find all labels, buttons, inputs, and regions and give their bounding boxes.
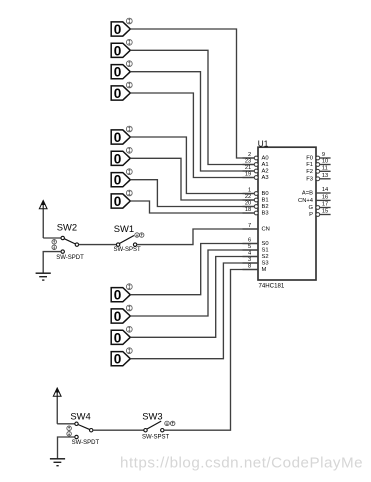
pin 21 A2 (243, 165, 269, 175)
svg-text:0: 0 (114, 86, 122, 101)
svg-text:5: 5 (248, 244, 251, 250)
svg-text:0: 0 (114, 352, 122, 367)
wire SW4 pole to SW3 (93, 429, 144, 431)
svg-text:4: 4 (248, 251, 251, 257)
svg-text:SW-SPDT: SW-SPDT (56, 255, 84, 261)
svg-text:B1: B1 (262, 198, 269, 204)
pin 6 S0 (243, 238, 269, 248)
switch SW3 SW-SPST (142, 410, 175, 440)
wire LS10 to U1 S1 (130, 250, 258, 316)
logic state LS4 (net A3) (111, 82, 132, 101)
svg-text:16: 16 (322, 195, 328, 201)
pin 13 F3 (306, 173, 330, 183)
svg-text:S1: S1 (262, 248, 269, 254)
svg-text:7: 7 (248, 223, 251, 229)
svg-text:9: 9 (322, 152, 325, 158)
power symbol (VCC arrow) for SW4 (53, 388, 61, 424)
svg-text:B0: B0 (262, 191, 269, 197)
pin 10 F1 (306, 159, 330, 169)
logic state LS11 (net S2) (111, 326, 132, 345)
svg-text:18: 18 (245, 207, 251, 213)
logic state LS12 (net S3) (111, 348, 132, 367)
wire SW1 to U1 CN (137, 229, 258, 245)
svg-text:3: 3 (248, 257, 251, 263)
pin 3 S3 (243, 257, 269, 267)
svg-text:0: 0 (114, 173, 122, 188)
pin 14 A=B (302, 187, 331, 197)
svg-text:0: 0 (114, 151, 122, 166)
svg-text:19: 19 (245, 172, 251, 178)
switch SW2 SW-SPDT (52, 222, 84, 261)
svg-text:M: M (262, 267, 267, 273)
wire power to SW2 top throw (43, 237, 61, 239)
pin 5 S1 (243, 244, 269, 254)
wire SW2 bottom throw to ground (43, 252, 61, 273)
op IC U1 74HC181 body (258, 140, 316, 290)
pin 1 B0 (243, 188, 269, 198)
svg-text:15: 15 (322, 209, 328, 215)
logic state LS10 (net S1) (111, 305, 132, 324)
svg-text:A2: A2 (262, 169, 269, 175)
svg-text:SW-SPST: SW-SPST (142, 435, 170, 441)
logic state LS1 (net A0) (111, 18, 132, 37)
pin 17 G (308, 202, 330, 212)
pin 22 B1 (243, 194, 269, 204)
logic state LS2 (net A1) (111, 39, 132, 58)
svg-text:S0: S0 (262, 241, 269, 247)
svg-text:B2: B2 (262, 204, 269, 210)
svg-text:8: 8 (248, 264, 251, 270)
svg-text:CN: CN (262, 227, 270, 233)
pin 16 CN+4 (298, 195, 331, 205)
pin 20 B2 (243, 201, 269, 211)
wire LS1 to U1 A0 (130, 29, 254, 158)
logic state LS9 (net S0) (111, 284, 132, 303)
pin 2 A0 (243, 152, 269, 162)
ground symbol below SW4 (50, 459, 65, 466)
wire LS9 to U1 S0 (130, 244, 258, 295)
svg-text:SW4: SW4 (70, 410, 90, 421)
svg-text:U1: U1 (258, 140, 269, 149)
svg-text:0: 0 (114, 130, 122, 145)
svg-text:SW1: SW1 (114, 223, 134, 234)
pin 11 F2 (306, 166, 330, 176)
svg-text:F3: F3 (306, 177, 313, 183)
wire power to SW4 top throw (57, 423, 75, 425)
svg-text:A3: A3 (262, 175, 269, 181)
wire SW3 to U1 M (164, 270, 258, 431)
pin 15 P (309, 209, 330, 219)
svg-text:22: 22 (245, 194, 251, 200)
logic state LS3 (net A2) (111, 61, 132, 80)
pin 7 CN (243, 223, 270, 233)
svg-text:S3: S3 (262, 261, 269, 267)
svg-text:P: P (309, 212, 313, 218)
wire LS4 to U1 A3 (130, 93, 254, 178)
svg-text:11: 11 (322, 166, 328, 172)
svg-text:2: 2 (248, 152, 251, 158)
switch SW4 SW-SPDT (67, 410, 100, 446)
logic state LS8 (net B3) (111, 190, 132, 209)
wire LS7 to U1 B2 (130, 180, 254, 207)
svg-text:SW2: SW2 (57, 222, 77, 233)
wire SW4 bottom throw to ground (58, 437, 75, 459)
wire LS11 to U1 S2 (130, 257, 258, 338)
svg-text:CN+4: CN+4 (298, 198, 314, 204)
svg-text:17: 17 (322, 202, 328, 208)
svg-text:0: 0 (114, 309, 122, 324)
svg-text:F1: F1 (306, 162, 313, 168)
svg-text:0: 0 (114, 330, 122, 345)
pin 18 B3 (243, 207, 269, 217)
svg-text:https://blog.csdn.net/CodePlay: https://blog.csdn.net/CodePlayMe (120, 455, 363, 472)
svg-text:F2: F2 (306, 169, 313, 175)
pin 4 S2 (243, 251, 269, 261)
wire LS2 to U1 A1 (130, 50, 254, 164)
svg-text:SW-SPST: SW-SPST (114, 247, 142, 253)
wire LS3 to U1 A2 (130, 72, 254, 171)
svg-text:6: 6 (248, 238, 251, 244)
pin 19 A3 (243, 172, 269, 182)
logic state LS5 (net B0) (111, 126, 132, 145)
power symbol (VCC arrow) for SW2 (39, 201, 47, 238)
svg-text:A1: A1 (262, 162, 269, 168)
svg-text:A0: A0 (262, 156, 269, 162)
svg-text:0: 0 (114, 22, 122, 37)
wire LS6 to U1 B1 (130, 158, 254, 200)
wire LS8 to U1 B3 (130, 201, 254, 213)
svg-text:B3: B3 (262, 211, 269, 217)
svg-text:23: 23 (245, 159, 251, 165)
wire SW2 pole to SW1 (79, 244, 117, 246)
pin 8 M (243, 264, 267, 274)
wire LS12 to U1 S3 (130, 263, 258, 359)
svg-text:13: 13 (322, 173, 328, 179)
wire LS5 to U1 B0 (130, 137, 254, 194)
svg-text:74HC181: 74HC181 (259, 283, 285, 290)
svg-text:1: 1 (248, 188, 251, 194)
logic state LS6 (net B1) (111, 147, 132, 166)
svg-text:20: 20 (245, 201, 251, 207)
svg-text:0: 0 (114, 194, 122, 209)
svg-text:0: 0 (114, 43, 122, 58)
svg-text:0: 0 (114, 65, 122, 80)
svg-text:14: 14 (322, 187, 328, 193)
svg-text:21: 21 (245, 165, 251, 171)
svg-text:S2: S2 (262, 254, 269, 260)
logic state LS7 (net B2) (111, 169, 132, 188)
svg-text:SW-SPDT: SW-SPDT (72, 440, 100, 446)
switch SW1 SW-SPST (114, 223, 144, 253)
svg-text:F0: F0 (306, 156, 313, 162)
svg-text:A=B: A=B (302, 191, 313, 197)
pin 9 F0 (306, 152, 330, 162)
svg-text:SW3: SW3 (142, 410, 162, 421)
svg-text:0: 0 (114, 288, 122, 303)
ground symbol below SW2 (36, 273, 51, 280)
pin 23 A1 (243, 159, 269, 169)
svg-text:G: G (308, 205, 313, 211)
svg-text:10: 10 (322, 159, 328, 165)
